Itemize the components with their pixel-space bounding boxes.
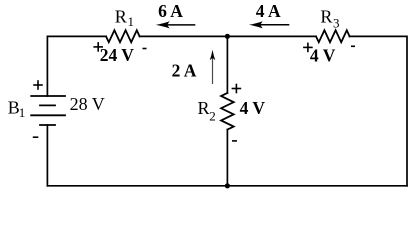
current arrow 2 A — [210, 50, 216, 84]
current arrow 6 A — [156, 21, 196, 28]
polarity - of R1 — [143, 48, 147, 50]
wire: left branch, battery + terminal up to top-left corner then right to R1 — [47, 36, 106, 96]
polarity + of R3 — [303, 43, 313, 53]
wire: R2 bottom lead to bottom node — [226, 130, 228, 186]
battery B1 — [31, 96, 65, 125]
wire: bottom horizontal rail — [47, 185, 407, 187]
svg-text:R: R — [115, 7, 127, 27]
current arrow 4 A — [249, 21, 289, 28]
svg-text:3: 3 — [333, 15, 340, 30]
wire: R2 top lead from top node — [226, 36, 228, 93]
label R3 — [320, 7, 339, 31]
svg-text:24 V: 24 V — [100, 45, 135, 65]
svg-text:6 A: 6 A — [158, 1, 183, 21]
label R2 — [198, 98, 216, 124]
svg-text:R: R — [320, 7, 332, 27]
label B1 — [8, 97, 26, 120]
svg-text:4 V: 4 V — [310, 46, 336, 66]
svg-text:1: 1 — [19, 105, 26, 120]
polarity - of battery B1 — [33, 136, 39, 138]
node: bottom junction — [225, 183, 230, 188]
wire: top-right corner down right side to bottom-right corner — [350, 36, 407, 185]
svg-text:R: R — [198, 98, 210, 118]
svg-text:28 V: 28 V — [70, 94, 105, 114]
resistor R3 — [316, 30, 350, 42]
resistor R2 — [221, 93, 234, 130]
svg-text:1: 1 — [128, 14, 135, 29]
polarity + of R2 — [232, 84, 242, 94]
wire: top middle, R1 right lead to R3 left lead through top node — [140, 35, 316, 37]
svg-text:2: 2 — [209, 109, 216, 124]
wire: left branch, battery - terminal down to bottom-left corner — [46, 125, 48, 186]
polarity + of R1 — [93, 42, 103, 52]
svg-text:4 A: 4 A — [256, 1, 281, 21]
svg-text:4 V: 4 V — [240, 98, 266, 118]
node: top junction — [225, 34, 230, 39]
svg-text:2 A: 2 A — [172, 61, 197, 81]
polarity - of R2 — [232, 140, 237, 142]
label R1 — [115, 7, 134, 30]
resistor R1 — [106, 30, 140, 42]
polarity - of R3 — [351, 45, 355, 47]
polarity + of battery B1 — [33, 80, 43, 90]
